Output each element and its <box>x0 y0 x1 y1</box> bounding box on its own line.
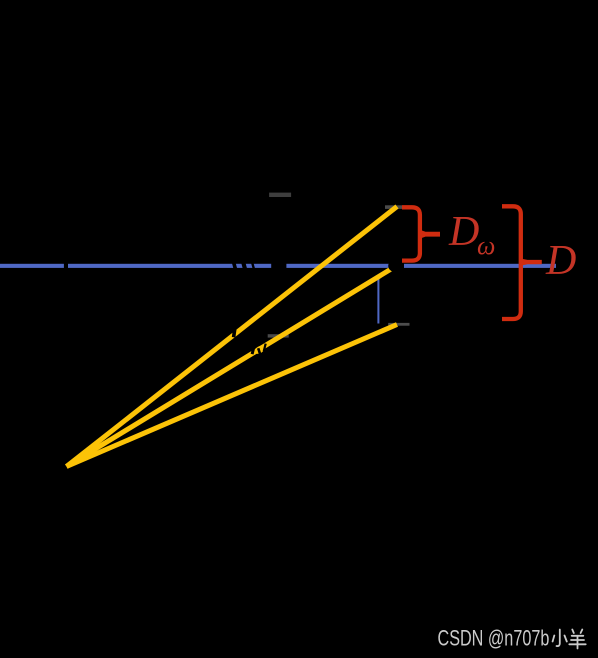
optical axis segment 2 <box>68 264 271 268</box>
svg-text:ω: ω <box>477 231 495 260</box>
optical axis segment 3 <box>286 264 396 268</box>
blue vertical image-height line <box>377 276 379 324</box>
yellow bulge on ray 2 (overlapped glyph) <box>253 344 266 355</box>
big brace cusp tick <box>519 258 542 266</box>
ray 1 (top yellow line) <box>67 207 398 467</box>
small red brace (D_omega) <box>402 207 420 260</box>
black node dot on axis <box>388 260 404 273</box>
gray dash (top, object marker) <box>269 193 291 197</box>
watermark glyph yang <box>569 630 585 649</box>
black notches on ray 2 <box>251 345 256 354</box>
optical axis segment 4 <box>404 264 556 268</box>
svg-text:D: D <box>448 209 479 255</box>
watermark glyph xiao <box>553 630 567 647</box>
black notch on ray 1 <box>232 327 237 337</box>
svg-text:CSDN @n707b: CSDN @n707b <box>438 626 550 651</box>
ray 3 (bottom yellow line) <box>67 325 398 467</box>
gray dash (mid lower marker) <box>268 334 289 337</box>
optical axis (blue horizontal line) segment 1 <box>0 264 64 268</box>
gray dash (at bottom image point) <box>388 323 409 326</box>
svg-text:D: D <box>545 238 576 284</box>
small brace cusp tick <box>418 229 440 239</box>
gray dash (at top image point) <box>385 205 402 209</box>
ray 2 (middle yellow line) <box>67 266 397 467</box>
black tick marks over axis (hidden text) <box>232 262 255 271</box>
big red brace (D) <box>502 206 521 319</box>
